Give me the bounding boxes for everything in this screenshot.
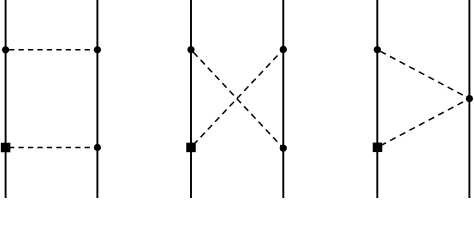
- wire: dashed propagator lower-left to middle-right (diagram 3): [378, 99, 470, 148]
- node: middle-right vertex dot (diagram 3): [466, 95, 473, 102]
- node: upper-left vertex dot (diagram 1): [2, 46, 9, 53]
- node: upper-left vertex dot (diagram 2): [187, 46, 194, 53]
- diagram 2: crossed ladder: [186, 0, 287, 198]
- node: upper-right vertex dot (diagram 1): [94, 46, 101, 53]
- wire: left fermion line (diagram 3): [376, 0, 378, 198]
- node: upper-right vertex dot (diagram 2): [280, 46, 287, 53]
- wire: left fermion line (diagram 2): [190, 0, 192, 198]
- node: upper-left vertex dot (diagram 3): [374, 46, 381, 53]
- wire: dashed propagator top-left to bottom-right (diagram 2): [191, 50, 283, 149]
- wire: lower dashed exchange propagator (diagram 1): [6, 147, 98, 149]
- wire: right fermion line (diagram 1): [96, 0, 98, 198]
- wire: dashed propagator top-right to bottom-left (diagram 2): [191, 49, 283, 147]
- node: lower-left counterterm square (diagram 1): [1, 143, 11, 153]
- node: lower-right vertex dot (diagram 1): [94, 144, 101, 151]
- node: lower-left counterterm square (diagram 3): [373, 143, 383, 153]
- wire: right fermion line (diagram 3): [468, 0, 470, 198]
- node: lower-right vertex dot (diagram 2): [280, 145, 287, 152]
- wire: dashed propagator upper-left to middle-right (diagram 3): [377, 50, 469, 99]
- wire: upper dashed exchange propagator (diagram 1): [6, 49, 98, 51]
- node: lower-left counterterm square (diagram 2): [186, 143, 196, 153]
- wire: left fermion line (diagram 1): [5, 0, 7, 198]
- diagram 1: ladder: [1, 0, 101, 198]
- wire: right fermion line (diagram 2): [282, 0, 284, 198]
- diagram 3: vertex correction: [373, 0, 473, 198]
